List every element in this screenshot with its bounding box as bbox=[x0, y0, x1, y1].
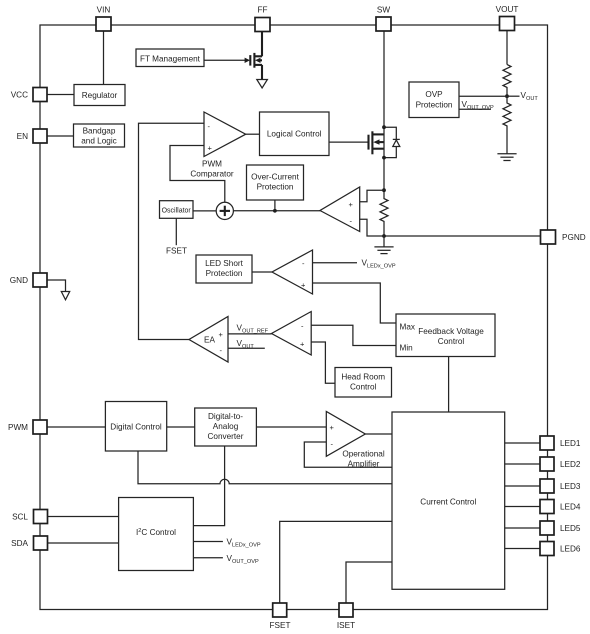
resistor Rsense bbox=[380, 188, 388, 236]
op-amp feedback comparator bbox=[272, 312, 312, 356]
ground under divider bbox=[497, 142, 516, 161]
svg-text:SCL: SCL bbox=[12, 513, 28, 522]
wire comparator2 plus to Head Room Control bbox=[311, 342, 335, 383]
block Head Room Control bbox=[335, 368, 392, 398]
svg-text:VOUT_OVP: VOUT_OVP bbox=[462, 100, 494, 111]
wire summing node to PWM comparator plus input bbox=[170, 146, 225, 203]
wire LED5 bbox=[505, 527, 541, 529]
svg-text:LED Short: LED Short bbox=[205, 259, 243, 268]
pin LED4 bbox=[540, 500, 581, 514]
block Digital-to-Analog Converter bbox=[195, 408, 257, 446]
op-amp operational amplifier bbox=[326, 412, 385, 469]
wire EA plus input to comparator2 output bbox=[228, 333, 272, 335]
wire junction to Over-Current Protection bbox=[273, 200, 277, 213]
svg-text:Bandgap: Bandgap bbox=[83, 127, 116, 136]
wire current comparator minus input to ground node bbox=[360, 219, 384, 236]
pin PWM bbox=[8, 420, 47, 434]
resistor R1 top of divider bbox=[503, 65, 511, 97]
wire LED6 bbox=[505, 548, 541, 550]
svg-text:Min: Min bbox=[400, 344, 414, 353]
pin VCC bbox=[11, 88, 47, 102]
transistor Q1 FF disconnect FET bbox=[204, 32, 262, 80]
op-amp PWM comparator bbox=[190, 112, 245, 179]
wire VIN to Regulator bbox=[103, 31, 105, 85]
label V_OUT_OVP bbox=[462, 100, 494, 111]
svg-text:Control: Control bbox=[350, 383, 377, 392]
svg-text:VIN: VIN bbox=[97, 6, 111, 15]
svg-text:EN: EN bbox=[17, 132, 28, 141]
wire Digital Control to DAC bbox=[167, 426, 195, 428]
svg-text:Max: Max bbox=[400, 323, 415, 332]
wire SW pin to sense resistor node bbox=[383, 31, 385, 190]
svg-text:LED1: LED1 bbox=[560, 439, 581, 448]
svg-text:VOUT_OVP: VOUT_OVP bbox=[227, 554, 259, 565]
stub V_LEDx_OVP from I2C Control bbox=[193, 541, 223, 543]
wire summing circle to current comparator output bbox=[233, 210, 320, 212]
svg-text:Protection: Protection bbox=[206, 269, 243, 278]
svg-text:GND: GND bbox=[10, 276, 28, 285]
svg-text:Regulator: Regulator bbox=[82, 91, 118, 100]
svg-text:+: + bbox=[301, 281, 306, 290]
pin VIN bbox=[96, 6, 111, 32]
pin GND bbox=[10, 273, 47, 287]
pin PGND bbox=[541, 230, 586, 244]
wire FSET pin to Current Control bbox=[280, 521, 392, 603]
svg-text:PWM: PWM bbox=[8, 423, 28, 432]
svg-text:Operational: Operational bbox=[342, 450, 385, 459]
svg-text:Analog: Analog bbox=[213, 422, 239, 431]
wire LED Short Protection to comparator bbox=[252, 271, 272, 273]
svg-text:Digital Control: Digital Control bbox=[110, 423, 162, 432]
wire sense node to PGND bbox=[382, 234, 540, 238]
wire VOUT pin to divider bbox=[506, 31, 508, 65]
svg-text:VLEDx_OVP: VLEDx_OVP bbox=[227, 538, 261, 549]
ground arrow under Q1 bbox=[257, 80, 268, 89]
stub V_LEDx_OVP at comparator minus bbox=[313, 262, 358, 264]
wire Oscillator to summing circle bbox=[193, 210, 216, 212]
wire comparator plus to Feedback Max bbox=[313, 283, 397, 323]
svg-text:SW: SW bbox=[377, 6, 390, 15]
pin ISET bbox=[337, 603, 355, 630]
svg-text:EA: EA bbox=[204, 336, 215, 345]
wire VCC to Regulator bbox=[47, 94, 74, 96]
label V_OUT at EA bbox=[237, 339, 255, 350]
pin VOUT bbox=[496, 5, 519, 31]
svg-text:+: + bbox=[208, 144, 213, 153]
svg-text:LED2: LED2 bbox=[560, 460, 581, 469]
svg-text:+: + bbox=[300, 340, 305, 349]
svg-text:Current Control: Current Control bbox=[420, 498, 476, 507]
pin LED5 bbox=[540, 521, 581, 535]
wire SCL to I2C Control bbox=[48, 516, 119, 518]
svg-text:I2C Control: I2C Control bbox=[136, 528, 176, 537]
svg-text:FSET: FSET bbox=[166, 247, 187, 256]
label V_OUT at divider bbox=[521, 91, 539, 102]
op-amp LED short comparator bbox=[272, 250, 313, 294]
wire Digital Control to Current Control with hop bbox=[138, 451, 392, 484]
wire GND arrow stub bbox=[47, 280, 66, 292]
wire current comparator plus input to sense node bbox=[360, 190, 384, 202]
block I2C Control bbox=[119, 498, 194, 571]
block Feedback Voltage Control bbox=[396, 314, 495, 357]
block Logical Control bbox=[260, 112, 330, 156]
wire PWM pin to Digital Control bbox=[47, 426, 105, 428]
svg-text:Oscillator: Oscillator bbox=[162, 207, 192, 214]
svg-text:FF: FF bbox=[257, 6, 267, 15]
border frame bbox=[40, 25, 548, 610]
pin SW bbox=[376, 6, 391, 32]
svg-text:Control: Control bbox=[438, 337, 465, 346]
op-amp current comparator bbox=[320, 187, 360, 232]
wire DAC to op-amp plus input bbox=[256, 426, 326, 428]
pin SCL bbox=[12, 510, 47, 524]
pin SDA bbox=[11, 536, 47, 550]
label V_LEDx_OVP at I2C bbox=[227, 538, 261, 549]
wire OVP Protection to divider node bbox=[459, 95, 507, 97]
svg-text:Over-Current: Over-Current bbox=[251, 173, 299, 182]
body diode D1 bbox=[382, 125, 400, 159]
wire LED1 bbox=[505, 442, 541, 444]
svg-text:LED5: LED5 bbox=[560, 524, 581, 533]
stub V_OUT at EA minus input bbox=[228, 347, 265, 349]
wire PWM comparator output to Logical Control bbox=[246, 133, 260, 135]
block LED Short Protection bbox=[196, 255, 252, 283]
svg-text:+: + bbox=[219, 330, 224, 339]
svg-text:FSET: FSET bbox=[270, 621, 291, 630]
wire SDA to I2C Control bbox=[48, 542, 119, 544]
wire EA output to PWM comparator minus input bbox=[139, 123, 205, 339]
svg-text:Digital-to-: Digital-to- bbox=[208, 412, 243, 421]
wire Feedback Voltage Control to Current Control bbox=[448, 356, 450, 412]
svg-text:VOUT: VOUT bbox=[521, 91, 539, 102]
wire comparator2 minus to Feedback Min bbox=[311, 325, 396, 345]
svg-text:VLEDx_OVP: VLEDx_OVP bbox=[362, 259, 396, 270]
block Digital Control bbox=[105, 402, 166, 452]
svg-text:VOUT_REF: VOUT_REF bbox=[237, 324, 269, 335]
wire ISET pin to Current Control bbox=[346, 562, 392, 603]
block OVP Protection bbox=[409, 82, 459, 118]
svg-text:Protection: Protection bbox=[257, 183, 294, 192]
wire op-amp feedback from Current Control bbox=[304, 442, 392, 467]
svg-text:Amplifier: Amplifier bbox=[348, 460, 380, 469]
svg-text:Feedback Voltage: Feedback Voltage bbox=[418, 327, 484, 336]
svg-text:and Logic: and Logic bbox=[81, 137, 117, 146]
block Bandgap and Logic bbox=[74, 124, 125, 147]
pin FF bbox=[255, 6, 270, 32]
pin LED3 bbox=[540, 479, 581, 493]
block Regulator bbox=[74, 85, 125, 106]
block Over-Current Protection bbox=[247, 165, 304, 200]
pin EN bbox=[17, 129, 47, 143]
pin FSET bbox=[270, 603, 291, 630]
svg-text:PGND: PGND bbox=[562, 233, 586, 242]
wire LED3 bbox=[505, 485, 541, 487]
node VOUT sense bbox=[505, 94, 519, 98]
svg-text:PWM: PWM bbox=[202, 160, 222, 169]
ground arrow at GND pin bbox=[61, 292, 69, 300]
label V_LEDx_OVP bbox=[362, 259, 396, 270]
node FSET label bbox=[166, 247, 187, 256]
resistor R2 bottom of divider bbox=[503, 96, 511, 141]
op-amp EA error amplifier bbox=[189, 317, 228, 363]
svg-text:+: + bbox=[330, 423, 335, 432]
label V_OUT_OVP at I2C bbox=[227, 554, 259, 565]
wire EN to Bandgap bbox=[47, 135, 74, 137]
wire Oscillator to FSET net bbox=[175, 218, 177, 245]
block Oscillator bbox=[160, 201, 194, 219]
svg-text:+: + bbox=[349, 200, 354, 209]
pin LED1 bbox=[540, 436, 581, 450]
block FT Management bbox=[136, 49, 204, 67]
transistor Q2 power switch bbox=[369, 131, 385, 154]
pin LED2 bbox=[540, 457, 581, 471]
wire LED2 bbox=[505, 463, 541, 465]
svg-text:SDA: SDA bbox=[11, 539, 28, 548]
svg-text:Logical Control: Logical Control bbox=[267, 130, 322, 139]
svg-text:VCC: VCC bbox=[11, 91, 28, 100]
ground under Rsense bbox=[374, 236, 393, 254]
stub V_OUT_OVP from I2C Control bbox=[193, 557, 223, 559]
svg-text:ISET: ISET bbox=[337, 621, 355, 630]
svg-text:LED3: LED3 bbox=[560, 482, 581, 491]
wire LED4 bbox=[505, 506, 541, 508]
svg-text:VOUT: VOUT bbox=[496, 5, 519, 14]
svg-text:OVP: OVP bbox=[425, 90, 443, 99]
svg-text:Protection: Protection bbox=[416, 101, 453, 110]
svg-text:Head Room: Head Room bbox=[341, 373, 385, 382]
svg-text:LED4: LED4 bbox=[560, 503, 581, 512]
wire Logical Control to power FET gate bbox=[329, 141, 368, 143]
block Current Control bbox=[392, 412, 505, 589]
summing junction bbox=[216, 202, 233, 219]
wire DAC to I2C Control bbox=[193, 446, 224, 525]
label V_OUT_REF bbox=[237, 324, 269, 335]
pin LED6 bbox=[540, 542, 581, 556]
svg-text:LED6: LED6 bbox=[560, 545, 581, 554]
svg-text:FT Management: FT Management bbox=[140, 54, 201, 63]
stub V_OUT_OVP from OVP Protection bbox=[459, 108, 491, 110]
svg-text:Converter: Converter bbox=[208, 432, 244, 441]
svg-text:Comparator: Comparator bbox=[190, 170, 234, 179]
wire op-amp output to Current Control bbox=[365, 433, 392, 435]
